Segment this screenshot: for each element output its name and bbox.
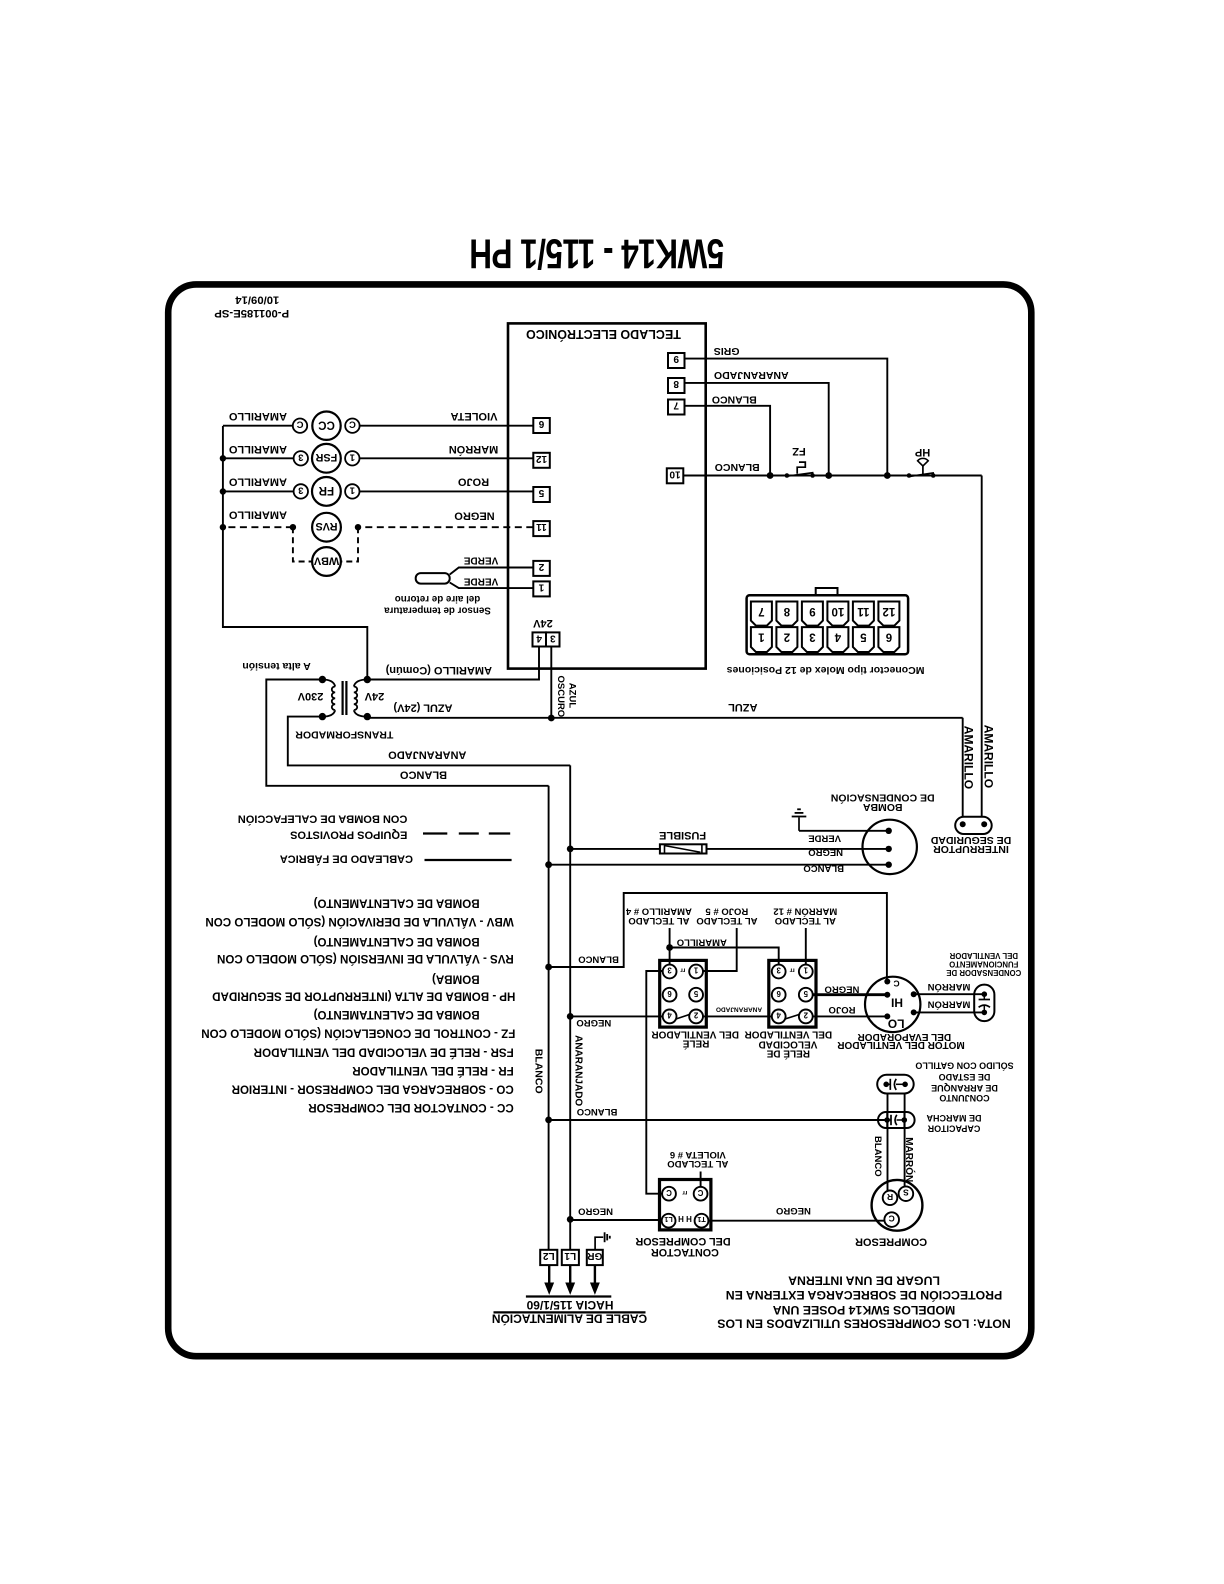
svg-text:NEGRO: NEGRO xyxy=(578,1206,613,1217)
molex cavities row A xyxy=(751,602,772,626)
compressor terminal R xyxy=(883,1191,898,1206)
svg-text:5: 5 xyxy=(803,989,808,998)
svg-text:MARRÓN: MARRÓN xyxy=(903,1137,916,1182)
junction dot wire8 xyxy=(825,472,832,479)
svg-text:7: 7 xyxy=(673,400,679,411)
svg-text:2: 2 xyxy=(803,1011,808,1020)
wire VERDE pump to ground xyxy=(799,830,889,832)
svg-text:CC: CC xyxy=(318,418,335,430)
svg-text:BLANCO: BLANCO xyxy=(803,863,844,874)
wire FSR to yellow bus xyxy=(223,457,294,459)
junction dot RVS left xyxy=(290,524,296,530)
svg-text:R: R xyxy=(887,1192,893,1202)
svg-text:6: 6 xyxy=(886,631,892,643)
junction dot azul xyxy=(548,715,555,722)
wire NEGRO bus to relay1-4 xyxy=(567,1013,574,1020)
svg-text:FR: FR xyxy=(318,484,334,496)
svg-text:1: 1 xyxy=(349,451,355,462)
fan relay coil FR xyxy=(312,477,341,506)
keypad terminal 7 xyxy=(668,400,685,415)
svg-text:CONJUNTO: CONJUNTO xyxy=(939,1093,989,1103)
svg-text:HP - BOMBA DE ALTA (INTERRUPTO: HP - BOMBA DE ALTA (INTERRUPTOR DE SEGUR… xyxy=(212,989,515,1002)
svg-text:S: S xyxy=(903,1188,909,1198)
svg-text:C: C xyxy=(666,1188,672,1197)
svg-text:RVS: RVS xyxy=(315,520,337,532)
svg-text:3: 3 xyxy=(776,966,781,975)
junction dot wire7 xyxy=(767,472,774,479)
svg-text:ANARANJADO: ANARANJADO xyxy=(714,369,789,381)
wire NEGRO bus to contactor L1 xyxy=(567,1216,574,1223)
keypad terminal 5 xyxy=(533,487,550,502)
white bus BLANCO vertical xyxy=(548,786,550,1250)
motor terminal dots xyxy=(884,979,890,985)
keypad terminal 9 xyxy=(668,353,685,368)
svg-text:C: C xyxy=(893,979,899,989)
svg-text:6: 6 xyxy=(776,989,781,998)
svg-text:NEGRO: NEGRO xyxy=(454,509,495,521)
svg-text:10: 10 xyxy=(669,468,681,479)
svg-text:BLANCO: BLANCO xyxy=(715,461,760,473)
svg-text:ANARANJADO: ANARANJADO xyxy=(573,1035,584,1106)
svg-text:C: C xyxy=(889,1214,895,1224)
fan speed relay FSR contact block xyxy=(769,960,816,1027)
wire FR to yellow bus xyxy=(223,490,294,492)
svg-text:1: 1 xyxy=(538,581,544,592)
svg-text:MARRÓN: MARRÓN xyxy=(927,981,970,993)
svg-text:DE SEGURIDAD: DE SEGURIDAD xyxy=(930,834,1011,846)
svg-text:FR - RELÉ DEL VENTILADOR: FR - RELÉ DEL VENTILADOR xyxy=(352,1064,514,1077)
svg-text:12: 12 xyxy=(536,453,548,464)
svg-text:RVS - VÁLVULA DE INVERSIÓN (SÓ: RVS - VÁLVULA DE INVERSIÓN (SÓLO MODELO … xyxy=(217,952,514,965)
safety interlock switch pill xyxy=(955,817,992,834)
keypad terminal 11 xyxy=(533,521,550,536)
wire BLANCO bus to pump xyxy=(545,861,552,868)
svg-text:BOMBA): BOMBA) xyxy=(432,972,480,985)
wire keypad-12 to FSR xyxy=(360,457,534,459)
wire amarillo junction to relay2-3 xyxy=(670,948,779,965)
CC terminal C left xyxy=(293,418,307,432)
power arrow GR xyxy=(594,1265,596,1283)
keypad terminal 1 xyxy=(533,581,550,596)
svg-text:1: 1 xyxy=(693,966,698,975)
svg-text:FZ - CONTROL DE CONGELACIÓN (S: FZ - CONTROL DE CONGELACIÓN (SÓLO MODELO… xyxy=(201,1027,515,1040)
wire NEGRO relay2-5 to motor xyxy=(813,993,888,996)
svg-text:AMARILLO: AMARILLO xyxy=(961,726,975,789)
svg-text:DEL COMPRESOR: DEL COMPRESOR xyxy=(635,1235,730,1247)
fan relay FR contact block xyxy=(660,960,707,1027)
wire fuse to pump NEGRO xyxy=(707,848,889,850)
condensation pump motor B1 xyxy=(863,820,917,874)
svg-text:C: C xyxy=(296,419,303,430)
svg-text:NEGRO: NEGRO xyxy=(776,1205,811,1216)
svg-text:BOMBA DE CALENTAMENTO): BOMBA DE CALENTAMENTO) xyxy=(314,935,480,948)
bypass valve coil WBV xyxy=(312,547,341,576)
svg-text:BOMBA DE CALENTAMENTO): BOMBA DE CALENTAMENTO) xyxy=(314,896,480,909)
svg-text:BOMBA DE CALENTAMENTO): BOMBA DE CALENTAMENTO) xyxy=(314,1008,480,1021)
svg-text:OSCURO: OSCURO xyxy=(555,676,566,718)
wire relay1-3 to contactor C xyxy=(646,971,663,1194)
compressor motor M2 xyxy=(872,1180,923,1231)
dashed wire keypad-11 to RVS xyxy=(358,526,533,528)
transformer T1 windings xyxy=(322,680,367,717)
svg-text:CABLE DE ALIMENTACIÓN: CABLE DE ALIMENTACIÓN xyxy=(492,1312,647,1327)
svg-text:2: 2 xyxy=(693,1011,698,1020)
contactor contact C right xyxy=(694,1187,708,1201)
wire AZUL 24V horizontal xyxy=(367,717,962,719)
svg-text:3: 3 xyxy=(667,966,672,975)
svg-text:AMARILLO: AMARILLO xyxy=(677,937,727,948)
wire MARRON motor to capacitor lower xyxy=(914,1011,985,1013)
svg-text:8: 8 xyxy=(673,378,679,389)
legend dashed line sample xyxy=(423,832,447,834)
svg-text:CON BOMBA DE CALEFACCIÓN: CON BOMBA DE CALEFACCIÓN xyxy=(238,813,408,826)
keypad terminal 10 xyxy=(667,468,684,483)
svg-text:GRIS: GRIS xyxy=(714,345,740,357)
svg-text:H H: H H xyxy=(678,1214,692,1223)
svg-text:4: 4 xyxy=(834,631,841,643)
freeze control switch FZ xyxy=(785,473,790,478)
wire HP to safety switch xyxy=(981,476,983,817)
svg-text:5WK14 - 115/1 PH: 5WK14 - 115/1 PH xyxy=(470,230,725,276)
run capacitor oval CAPACITOR DE MARCHA xyxy=(878,1112,915,1128)
compressor terminal S xyxy=(899,1186,914,1201)
svg-text:MARRÓN: MARRÓN xyxy=(927,999,970,1011)
svg-text:Sensor de temperatura: Sensor de temperatura xyxy=(384,605,491,616)
svg-text:DEL EVAPORADOR: DEL EVAPORADOR xyxy=(857,1031,951,1042)
wire BLANCO bus to run capacitor xyxy=(545,1117,552,1124)
svg-text:AMARILLO: AMARILLO xyxy=(981,725,995,788)
junction dot bus FR xyxy=(220,488,226,494)
svg-text:3: 3 xyxy=(550,632,556,643)
power terminal L1 xyxy=(562,1250,579,1265)
svg-text:1: 1 xyxy=(803,966,808,975)
svg-text:4: 4 xyxy=(536,632,542,643)
wire keypad-6 to CC xyxy=(360,425,534,427)
svg-text:P-001185E-SP: P-001185E-SP xyxy=(214,307,289,319)
power terminal GR xyxy=(587,1250,603,1265)
svg-text:9: 9 xyxy=(673,353,679,364)
wire ANARANJADO relay1-2 to relay2-4 xyxy=(703,1015,772,1017)
svg-text:BLANCO: BLANCO xyxy=(533,1049,545,1094)
svg-text:3: 3 xyxy=(298,484,303,495)
molex tab xyxy=(816,588,838,595)
fuse F1 wire from bus xyxy=(567,846,574,853)
contactor contact L1 xyxy=(662,1214,676,1228)
svg-text:5: 5 xyxy=(538,487,544,498)
svg-text:3: 3 xyxy=(298,451,303,462)
wire BLANCO bus over to motor C xyxy=(545,964,552,971)
pump terminal dots xyxy=(886,828,892,834)
wire contactor to AL TECLADO VIOLETA 6 xyxy=(700,1172,702,1187)
CC terminal C right xyxy=(345,418,359,432)
svg-text:AZUL: AZUL xyxy=(566,683,577,709)
molex connector 12 position shell xyxy=(747,595,909,654)
svg-text:EQUIPOS PROVISTOS: EQUIPOS PROVISTOS xyxy=(290,829,407,841)
wire keypad-9 GRIS xyxy=(685,359,888,476)
svg-text:FZ: FZ xyxy=(792,445,806,457)
svg-text:4: 4 xyxy=(667,1011,672,1020)
keypad terminal 6 xyxy=(533,418,550,433)
svg-text:AMARILLO: AMARILLO xyxy=(228,443,286,455)
svg-text:24V: 24V xyxy=(364,690,384,702)
svg-text:11: 11 xyxy=(536,521,547,532)
wire keypad-5 to FR xyxy=(360,490,534,492)
svg-text:COMPRESOR: COMPRESOR xyxy=(855,1236,927,1248)
junction dot wire9 xyxy=(884,472,891,479)
svg-text:12: 12 xyxy=(883,605,896,617)
svg-text:LO: LO xyxy=(888,1017,905,1031)
svg-text:230V: 230V xyxy=(297,690,323,702)
svg-text:HI: HI xyxy=(891,996,903,1010)
svg-text:MARRÓN # 12: MARRÓN # 12 xyxy=(773,906,837,918)
svg-text:VERDE: VERDE xyxy=(463,554,498,565)
svg-text:TECLADO ELECTRÓNICO: TECLADO ELECTRÓNICO xyxy=(526,327,681,342)
legend solid line sample xyxy=(425,859,512,861)
svg-text:AMARILLO: AMARILLO xyxy=(228,509,286,521)
power caption underline 2 xyxy=(494,1311,646,1313)
wire start kit to compressor S xyxy=(904,1094,906,1187)
junction dot bus RVS xyxy=(220,524,226,530)
wire MARRON motor to capacitor upper xyxy=(914,993,985,995)
svg-text:CAPACITOR: CAPACITOR xyxy=(927,1123,980,1133)
svg-text:DE ARRANQUE: DE ARRANQUE xyxy=(931,1083,998,1093)
dashed bracket right RVS-WBV xyxy=(341,527,358,561)
keypad terminal 2 xyxy=(533,561,550,576)
svg-text:rr: rr xyxy=(680,967,686,974)
wire AL TECLADO MARRON 12 to relay2-1 xyxy=(805,928,807,965)
svg-text:C: C xyxy=(349,419,356,430)
svg-text:VERDE: VERDE xyxy=(808,833,841,844)
svg-text:6: 6 xyxy=(667,989,672,998)
svg-text:AZUL (24V): AZUL (24V) xyxy=(393,701,452,713)
wire 230V bottom ANARANJADO xyxy=(288,717,570,766)
svg-text:5: 5 xyxy=(693,989,698,998)
svg-text:FUSIBLE: FUSIBLE xyxy=(659,829,706,841)
wire relay1-3 up to AL TECLADO AMARILLO 4 xyxy=(669,928,671,965)
power arrow L1 xyxy=(569,1265,571,1283)
svg-text:CC - CONTACTOR DEL COMPRESOR: CC - CONTACTOR DEL COMPRESOR xyxy=(308,1101,514,1114)
svg-text:7: 7 xyxy=(758,605,764,617)
wire NEGRO contactor T1 to compressor C xyxy=(708,1220,884,1222)
power arrow L2 xyxy=(548,1265,550,1283)
svg-text:2: 2 xyxy=(784,631,790,643)
svg-text:VIOLETA # 6: VIOLETA # 6 xyxy=(670,1149,726,1160)
svg-text:WBV - VÁLVULA DE DERIVACIÓN (S: WBV - VÁLVULA DE DERIVACIÓN (SÓLO MODELO… xyxy=(205,915,513,928)
transformer core xyxy=(341,681,343,715)
svg-text:NEGRO: NEGRO xyxy=(824,983,859,994)
svg-text:3: 3 xyxy=(809,631,815,643)
contactor contact T1 xyxy=(695,1214,709,1228)
svg-text:GR: GR xyxy=(587,1250,603,1261)
wire keypad-2 to sensor xyxy=(450,568,534,575)
svg-text:L2: L2 xyxy=(543,1250,555,1261)
wire keypad-8 ANARANJADO xyxy=(685,383,829,476)
wire AMARILLO comun from keypad-4 xyxy=(367,647,539,680)
svg-text:MConector tipo Molex de 12 Pos: MConector tipo Molex de 12 Posiciones xyxy=(727,664,925,676)
svg-text:rr: rr xyxy=(682,1189,688,1196)
wire CC to yellow bus xyxy=(223,425,293,427)
svg-text:24V: 24V xyxy=(532,617,552,629)
wire 230V top to high voltage xyxy=(266,680,548,786)
dashed wire RVS to yellow bus xyxy=(223,526,293,528)
fuse F1 body xyxy=(660,844,707,853)
svg-text:1: 1 xyxy=(349,484,355,495)
FSR terminal 1 xyxy=(345,451,359,465)
svg-text:5: 5 xyxy=(860,631,867,643)
svg-text:SÓLIDO CON GATILLO: SÓLIDO CON GATILLO xyxy=(915,1060,1013,1071)
svg-text:ANARANJADO: ANARANJADO xyxy=(716,1006,762,1013)
svg-text:PROTECCIÓN DE SOBRECARGA EXTER: PROTECCIÓN DE SOBRECARGA EXTERNA EN xyxy=(726,1288,1003,1303)
ground symbol pump xyxy=(792,816,807,818)
electronic keypad box U1 TECLADO ELECTRONICO xyxy=(508,323,706,668)
power terminal L2 xyxy=(540,1250,557,1265)
wire keypad-10 BLANCO main line xyxy=(683,475,981,477)
svg-text:CABLEADO DE FÁBRICA: CABLEADO DE FÁBRICA xyxy=(280,853,413,866)
fan speed relay coil FSR xyxy=(312,444,341,473)
compressor contactor CC contact block xyxy=(660,1180,711,1230)
svg-text:DEL VENTILADOR: DEL VENTILADOR xyxy=(651,1029,739,1040)
compressor terminal C xyxy=(884,1212,899,1227)
svg-text:VIOLETA: VIOLETA xyxy=(451,410,498,422)
svg-text:A alta tensión: A alta tensión xyxy=(242,660,310,672)
power caption underline 1 xyxy=(526,1295,611,1297)
FSR terminal 3 xyxy=(294,451,308,465)
keypad terminal 12 xyxy=(533,453,550,468)
svg-text:DEL VENTILADOR: DEL VENTILADOR xyxy=(949,951,1018,960)
svg-text:BLANCO: BLANCO xyxy=(872,1136,883,1177)
junction dot amarillo relay xyxy=(666,944,673,951)
wire AZUL 24V from keypad-3 xyxy=(550,647,552,719)
svg-text:L1: L1 xyxy=(664,1215,672,1224)
svg-text:LUGAR DE UNA INTERNA: LUGAR DE UNA INTERNA xyxy=(788,1273,940,1287)
svg-text:C: C xyxy=(697,1188,703,1197)
junction dot bus FSR xyxy=(220,455,226,461)
return air temperature sensor bulb xyxy=(416,573,450,584)
svg-text:AZUL: AZUL xyxy=(728,701,758,713)
svg-text:MODELOS 5WK14 POSEE UNA: MODELOS 5WK14 POSEE UNA xyxy=(773,1303,956,1317)
svg-text:del aire de retorno: del aire de retorno xyxy=(395,593,480,604)
junction dot RVS right xyxy=(355,524,361,530)
svg-text:CO - SOBRECARGA DEL COMPRESOR: CO - SOBRECARGA DEL COMPRESOR - INTERIOR xyxy=(231,1083,514,1096)
svg-text:AMARILLO # 4: AMARILLO # 4 xyxy=(625,906,692,917)
wire keypad-1 to sensor xyxy=(450,583,534,589)
transformer terminal dots xyxy=(319,676,326,683)
svg-text:TRANSFORMADOR: TRANSFORMADOR xyxy=(295,729,393,741)
svg-text:BLANCO: BLANCO xyxy=(712,393,757,405)
dashed bracket left RVS-WBV xyxy=(293,527,312,561)
yellow bus wire AMARILLO xyxy=(223,426,367,680)
keypad terminal 8 xyxy=(668,378,685,393)
svg-text:8: 8 xyxy=(783,605,790,617)
svg-text:FSR: FSR xyxy=(315,451,337,463)
svg-text:4: 4 xyxy=(776,1011,781,1020)
wire AZUL down to safety switch xyxy=(962,718,964,817)
svg-text:DE CONDENSACIÓN: DE CONDENSACIÓN xyxy=(831,791,935,804)
svg-text:BLANCO: BLANCO xyxy=(577,1106,618,1117)
FR terminal 3 xyxy=(294,484,308,498)
contactor contact C left xyxy=(662,1187,676,1201)
high pressure switch HP xyxy=(907,473,912,478)
evaporator fan motor M1 xyxy=(865,977,920,1032)
ground symbol GR xyxy=(595,1237,603,1250)
wire keypad-7 BLANCO xyxy=(685,406,771,476)
svg-text:AMARILLO: AMARILLO xyxy=(228,410,286,422)
safety switch terminal dots xyxy=(960,821,966,827)
svg-text:DEL VENTILADOR: DEL VENTILADOR xyxy=(744,1029,832,1040)
outer rounded frame xyxy=(168,284,1031,1356)
svg-text:DE MARCHA: DE MARCHA xyxy=(926,1113,981,1123)
svg-text:MARRÓN: MARRÓN xyxy=(449,443,499,456)
svg-text:AMARILLO: AMARILLO xyxy=(228,476,286,488)
molex cavities row B xyxy=(751,627,772,652)
svg-text:10: 10 xyxy=(832,605,845,617)
svg-text:ROJO: ROJO xyxy=(829,1004,856,1015)
wire start kit to compressor R xyxy=(887,1094,889,1192)
svg-text:NOTA: LOS COMPRESORES UTILIZAD: NOTA: LOS COMPRESORES UTILIZADOS EN LOS xyxy=(717,1316,1011,1330)
wire ROJO relay2-2 to motor LO xyxy=(813,1015,888,1017)
svg-text:BLANCO: BLANCO xyxy=(578,953,619,964)
svg-text:6: 6 xyxy=(538,418,544,429)
svg-text:ROJO: ROJO xyxy=(457,476,489,488)
svg-text:WBV: WBV xyxy=(313,554,339,566)
fan run capacitor C1 xyxy=(974,985,994,1022)
orange bus ANARANJADO vertical xyxy=(569,765,571,1249)
svg-text:BLANCO: BLANCO xyxy=(400,769,447,781)
compressor contactor coil CC xyxy=(312,411,340,439)
svg-text:ANARANJADO: ANARANJADO xyxy=(388,749,467,761)
start kit oval CONJUNTO DE ARRANQUE xyxy=(877,1075,914,1094)
svg-text:rr: rr xyxy=(789,967,795,974)
svg-text:FSR - RELÉ DE VELOCIDAD DEL VE: FSR - RELÉ DE VELOCIDAD DEL VENTILADOR xyxy=(253,1045,514,1058)
wire AL TECLADO ROJO 5 to relay1-1 xyxy=(703,928,737,971)
keypad terminals 3 4 (24V) xyxy=(533,632,547,646)
svg-text:L1: L1 xyxy=(564,1250,576,1261)
svg-text:9: 9 xyxy=(809,605,815,617)
reversing valve coil RVS xyxy=(312,513,341,542)
svg-text:1: 1 xyxy=(758,631,765,643)
svg-text:HP: HP xyxy=(915,446,930,458)
svg-text:DE ESTADO: DE ESTADO xyxy=(939,1072,991,1082)
svg-text:VERDE: VERDE xyxy=(463,575,498,586)
svg-text:HACIA 115/1/60: HACIA 115/1/60 xyxy=(526,1298,613,1312)
svg-text:11: 11 xyxy=(857,605,870,617)
svg-text:T1: T1 xyxy=(697,1215,705,1224)
svg-text:ROJO # 5: ROJO # 5 xyxy=(705,906,748,917)
svg-text:2: 2 xyxy=(538,561,544,572)
svg-text:NEGRO: NEGRO xyxy=(576,1017,611,1028)
svg-text:AMARILLO (Común): AMARILLO (Común) xyxy=(385,664,492,676)
svg-text:10/09/14: 10/09/14 xyxy=(235,293,280,305)
svg-text:NEGRO: NEGRO xyxy=(808,847,843,858)
FR terminal 1 xyxy=(345,484,359,498)
